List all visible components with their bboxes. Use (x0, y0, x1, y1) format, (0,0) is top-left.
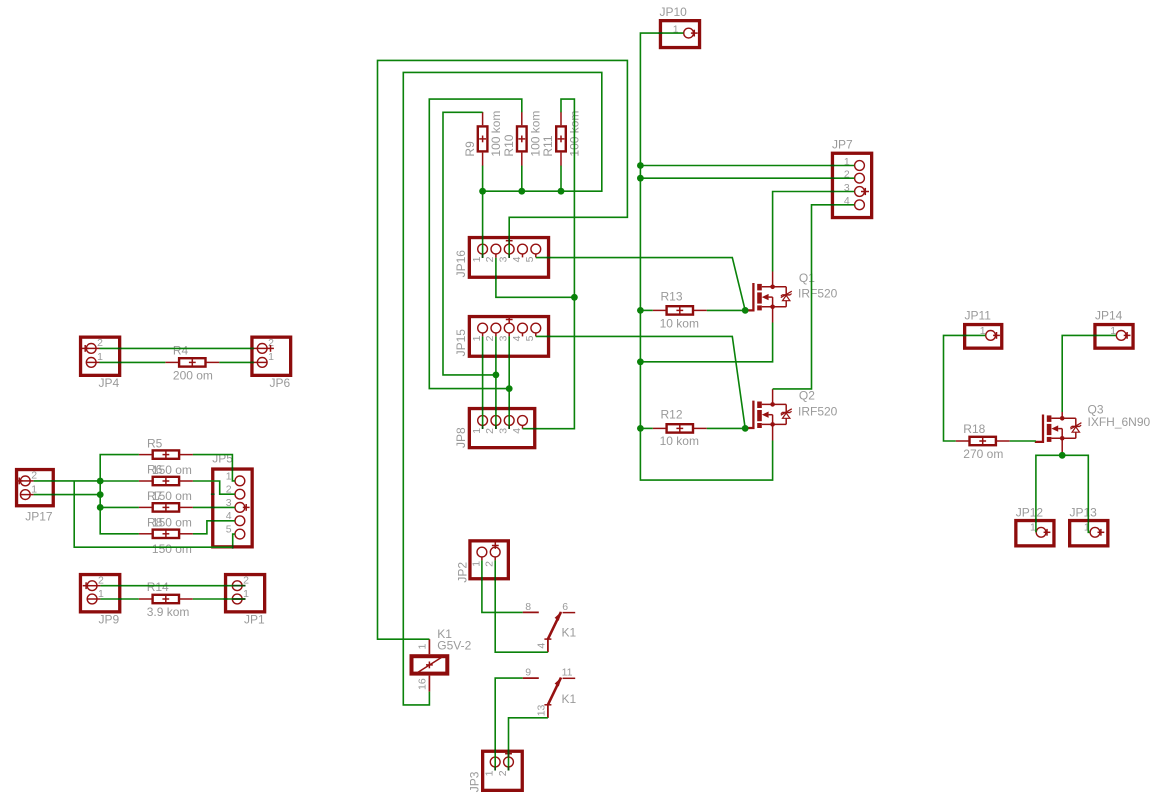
wire JP11 to R18 (944, 335, 986, 441)
value IRF520 of Q1 (798, 287, 838, 301)
wire JP17 pin 2 to JP5 pin 5 (74, 481, 235, 547)
wire R6 left (100, 480, 139, 482)
wire R13 left (640, 309, 652, 311)
value 150 om of R6 (152, 489, 192, 503)
pin 2 of JP2 (484, 547, 500, 567)
svg-text:8: 8 (525, 601, 531, 613)
label Q3 (1088, 402, 1104, 416)
svg-text:2: 2 (97, 337, 103, 349)
relay coil K1 (412, 639, 448, 691)
svg-text:R5: R5 (147, 436, 163, 450)
pin lines JP17 (20, 481, 33, 495)
pin 1 of JP1 (232, 588, 249, 604)
pin 1 of JP5 (226, 470, 245, 486)
wire over JP5 border pin 2 (211, 493, 215, 495)
svg-text:JP15: JP15 (454, 329, 468, 357)
svg-text:11: 11 (562, 667, 573, 679)
connector JP3 (483, 751, 523, 790)
junction JP16 pin 2 net (571, 294, 578, 301)
svg-text:13: 13 (535, 704, 547, 716)
svg-text:1: 1 (226, 470, 232, 482)
svg-text:R9: R9 (463, 141, 477, 157)
wire R14 to JP1 pin 1 (193, 598, 246, 600)
wire over JP3 border pin 2 (508, 749, 510, 753)
value 3.9 kom of R14 (147, 605, 190, 619)
origin cross JP13 (1098, 529, 1105, 536)
connector JP14 (1095, 325, 1133, 349)
svg-text:2: 2 (98, 575, 104, 587)
connector JP11 (965, 325, 1002, 349)
connector JP2 (470, 541, 508, 579)
wire over JP11 border (963, 334, 967, 336)
pin 4 label (535, 643, 547, 649)
wire JP15 pin 1 to JP8 pin 1 (482, 336, 484, 428)
wire R10 bottom (521, 166, 523, 192)
svg-text:1: 1 (31, 483, 37, 495)
svg-text:1: 1 (471, 335, 483, 341)
label JP17 (25, 510, 53, 524)
svg-text:JP17: JP17 (25, 510, 53, 524)
wire end over JP3 pin 2 (508, 767, 510, 771)
connector JP9 (80, 575, 119, 612)
pin 2 of JP3 (497, 757, 513, 776)
label R6 (147, 463, 163, 477)
junction JP7 pin 1 net (637, 162, 644, 169)
wire R7 left (100, 506, 139, 508)
svg-text:2: 2 (484, 256, 496, 262)
wire over JP6 border pin 1 (250, 361, 254, 363)
value IRF520 of Q2 (798, 404, 838, 418)
wire to JP7 pin 2 (640, 177, 854, 179)
svg-text:1: 1 (268, 351, 274, 363)
label JP15 (454, 329, 468, 357)
wire end over JP16 pin 3 (508, 254, 510, 258)
label R11 (541, 135, 555, 156)
pin 5 of JP5 (226, 524, 245, 539)
wire over JP10 border (659, 32, 663, 34)
connector JP16 (469, 238, 548, 278)
svg-text:1: 1 (243, 588, 249, 600)
resistor R6 (139, 477, 193, 485)
wire JP16 pin 3 outer loop to relay coil pin 1 (378, 60, 628, 639)
svg-text:R14: R14 (147, 580, 169, 594)
wire over JP16 border pin 5 (547, 257, 551, 259)
junction R12 left (637, 425, 644, 432)
wire over JP7 border pin 4 (831, 204, 835, 206)
label JP5 (212, 452, 233, 466)
connector JP5 (213, 469, 252, 547)
label JP4 (99, 376, 120, 390)
wire over JP7 border pin 1 (831, 165, 835, 167)
svg-text:4: 4 (511, 335, 523, 341)
svg-text:JP4: JP4 (99, 376, 120, 390)
origin cross JP5 (243, 504, 250, 511)
pin lines JP9 (87, 586, 100, 599)
label JP2 (455, 562, 469, 583)
wire over JP15 border pin 2 (495, 354, 497, 358)
junction Q1 source (637, 358, 644, 365)
wire over JP9 border pin 2 (118, 585, 122, 587)
wire over JP15 border pin 1 (482, 354, 484, 358)
connector JP7 (832, 153, 871, 217)
wire Q1 source (640, 323, 772, 362)
wire over JP12 border (1035, 519, 1037, 523)
svg-text:150 om: 150 om (152, 463, 192, 477)
svg-text:16: 16 (417, 678, 429, 690)
value 10 kom of R13 (660, 317, 699, 331)
origin cross JP17 (16, 478, 23, 485)
svg-text:JP16: JP16 (454, 250, 468, 278)
junction R11 bottom (558, 188, 565, 195)
label K1 coil (437, 627, 452, 641)
wire R5 to JP5 pin 1 (193, 455, 235, 481)
value G5V-2 of K1 (437, 638, 471, 652)
svg-text:JP7: JP7 (832, 138, 853, 152)
pin 5 of JP16 (524, 244, 541, 262)
origin cross JP12 (1044, 529, 1051, 536)
svg-text:3.9 kom: 3.9 kom (147, 605, 190, 619)
wire R9 top to JP15 pin 2 junction (443, 112, 496, 375)
pin 3 of JP16 (498, 244, 515, 262)
wire R11 bottom (560, 166, 562, 192)
wire over JP16 border pin 1 (482, 236, 484, 240)
label K1 contact lower (562, 692, 577, 706)
pin 1 of JP15 (471, 323, 488, 341)
svg-text:JP9: JP9 (99, 613, 120, 627)
svg-text:1: 1 (97, 351, 103, 363)
wire over JP2 border pin 2 (494, 577, 496, 581)
resistor R8 (139, 530, 193, 538)
origin cross JP7 (861, 188, 869, 195)
wire JP2 pin 1 to contact pin 8 (482, 560, 523, 612)
svg-text:150 om: 150 om (152, 489, 192, 503)
svg-text:2: 2 (31, 470, 37, 482)
junction R7 left (97, 504, 104, 511)
wire end over JP16 pin 1 (482, 254, 484, 258)
wire over JP9 border pin 1 (118, 598, 122, 600)
label R8 (147, 516, 163, 530)
transistor Q3 (1035, 412, 1082, 452)
wire over JP5 border pin 3 (211, 506, 215, 508)
svg-text:100 kom: 100 kom (489, 111, 503, 157)
resistor R9 (478, 112, 488, 166)
svg-text:9: 9 (525, 667, 531, 679)
pin 4 of JP8 (511, 416, 528, 434)
wire over JP7 border pin 2 (831, 177, 835, 179)
wire over JP3 origin cross (508, 750, 510, 757)
value 150 om of R7 (152, 516, 192, 530)
svg-text:G5V-2: G5V-2 (437, 638, 471, 652)
wire R9 bottom to JP16 pin 1 (482, 166, 484, 258)
wire resistor bus R5-R8 (100, 455, 139, 534)
resistor R13 (653, 306, 707, 314)
svg-text:R18: R18 (963, 422, 985, 436)
svg-text:K1: K1 (562, 625, 577, 639)
value IXFH_6N90 of Q3 (1088, 415, 1151, 429)
label JP16 (454, 250, 468, 278)
svg-text:2: 2 (497, 770, 509, 776)
resistor R11 (556, 112, 566, 166)
pin 5 of JP15 (524, 323, 541, 341)
wire over JP5 border bottom (232, 545, 234, 549)
pin 2 of JP7 (844, 169, 864, 184)
wire R8 to JP5 pin 4 (193, 521, 235, 534)
junction JP7 pin 2 net (637, 175, 644, 182)
pin 2 of JP15 (484, 323, 501, 341)
svg-text:5: 5 (524, 256, 536, 262)
pin 13 label (535, 704, 547, 716)
svg-text:JP12: JP12 (1016, 505, 1044, 519)
wire JP4 pin 1 to R4 (100, 361, 166, 363)
wire end over JP8 pin 3 (508, 425, 510, 429)
label R4 (173, 343, 189, 357)
wire JP10 net spine (640, 33, 772, 480)
wire JP2 pin 2 to contact pin 4 (495, 560, 548, 652)
svg-text:JP2: JP2 (455, 562, 469, 583)
label R9 (463, 141, 477, 157)
svg-text:R10: R10 (502, 134, 516, 156)
label JP9 (99, 613, 120, 627)
wire over JP1 border pin 2 (224, 585, 228, 587)
pin 1 of JP2 (470, 547, 486, 567)
svg-text:1: 1 (471, 256, 483, 262)
origin cross JP16 (506, 237, 513, 244)
pin 2 of JP17 (20, 470, 37, 486)
label R13 (661, 290, 683, 304)
wire over JP8 border pin 3 (508, 407, 510, 411)
pin 6 label (562, 601, 568, 613)
svg-text:10 kom: 10 kom (660, 434, 699, 448)
pin 1 of JP11 (980, 325, 996, 341)
pin 3 of JP7 (844, 182, 864, 197)
origin cross JP6 (267, 345, 274, 352)
svg-text:IRF520: IRF520 (798, 404, 838, 418)
wire Q2 drain to JP7 pin 4 (773, 205, 855, 389)
svg-text:5: 5 (524, 335, 536, 341)
connector JP13 (1070, 521, 1108, 546)
label JP8 (454, 427, 468, 448)
value 200 om of R4 (173, 369, 213, 383)
svg-text:150 om: 150 om (152, 542, 192, 556)
label K1 contact upper (562, 625, 577, 639)
value 150 om of R5 (152, 463, 192, 477)
connector JP8 (469, 409, 534, 448)
wire JP16 pin 5 to Q1 gate (536, 258, 745, 311)
origin cross JP2 (492, 542, 499, 549)
resistor R7 (139, 503, 193, 511)
svg-text:1: 1 (470, 561, 482, 567)
resistor R5 (139, 450, 193, 458)
svg-text:270 om: 270 om (963, 447, 1003, 461)
value 100 kom of R11 (568, 111, 582, 157)
wire over JP8 border pin 2 (495, 407, 497, 411)
label R14 (147, 580, 169, 594)
wire R12 left (640, 427, 652, 429)
junction JP15 pin 2 net (493, 372, 500, 379)
origin cross JP9 (83, 582, 90, 589)
svg-text:4: 4 (511, 428, 523, 434)
wire R4 to JP6 pin 1 (219, 361, 254, 363)
svg-text:R11: R11 (541, 135, 555, 156)
svg-text:3: 3 (498, 256, 510, 262)
resistor R4 (165, 358, 219, 366)
svg-text:5: 5 (226, 524, 232, 536)
wire to JP7 pin 1 (640, 165, 854, 167)
wire JP14 to Q3 drain (1062, 335, 1116, 412)
wire over JP7 border pin 3 (831, 191, 835, 193)
wire JP15 pin 5 to Q2 gate (536, 336, 745, 428)
pin 1 of JP8 (471, 416, 488, 434)
label JP10 (660, 5, 688, 19)
svg-text:4: 4 (511, 256, 523, 262)
wire over JP8 border pin 1 (482, 407, 484, 411)
wire over JP5 border pin 4 (211, 520, 215, 522)
svg-text:JP14: JP14 (1095, 309, 1123, 323)
junction Q1 gate (742, 307, 749, 314)
label R18 (963, 422, 985, 436)
pin lines JP1 (232, 586, 245, 599)
wire JP17 pin 2 (34, 480, 101, 482)
resistor R10 (517, 112, 527, 166)
junction Q3 source (1059, 452, 1066, 459)
svg-text:JP10: JP10 (660, 5, 688, 19)
label JP6 (270, 376, 291, 390)
label R7 (147, 489, 163, 503)
wire over JP16 border pin 3 (508, 236, 510, 240)
svg-text:IXFH_6N90: IXFH_6N90 (1088, 415, 1151, 429)
wire over JP1 border pin 1 (224, 598, 228, 600)
wire contact pin 13 to JP3 pin 2 (509, 718, 548, 771)
svg-text:JP13: JP13 (1070, 505, 1098, 519)
pin 16 of K1 coil (417, 678, 429, 690)
svg-text:3: 3 (498, 428, 510, 434)
label JP12 (1016, 505, 1044, 519)
pin 1 of JP4 (86, 351, 103, 367)
pin 2 of JP8 (484, 416, 501, 434)
svg-text:K1: K1 (562, 692, 577, 706)
svg-text:R13: R13 (661, 290, 683, 304)
connector JP12 (1016, 521, 1054, 546)
pin 1 of JP14 (1110, 325, 1126, 341)
pin 1 of JP10 (673, 24, 694, 38)
wire R7 to JP5 pin 3 (193, 506, 235, 508)
pin 1 of JP7 (844, 156, 864, 171)
junction JP15 pin 3 net (506, 385, 513, 392)
wire over JP17 border pin 1 (51, 494, 55, 496)
value 100 kom of R10 (528, 111, 542, 157)
wire over JP4 border pin 1 (118, 361, 122, 363)
wire end over JP3 pin 1 (494, 767, 496, 771)
wire Q1 drain to JP7 pin 3 (773, 192, 855, 272)
connector JP4 (81, 337, 120, 375)
wire JP15 pin 2 to JP8 pin 2 (495, 336, 497, 428)
svg-text:JP1: JP1 (244, 613, 265, 627)
pin 2 of JP4 (86, 337, 103, 353)
label JP1 (244, 613, 265, 627)
pin 1 of JP3 (484, 757, 500, 776)
label JP11 (965, 309, 992, 323)
wire end over JP8 pin 2 (495, 425, 497, 429)
wire JP16 pin 2 (496, 258, 575, 298)
svg-text:150 om: 150 om (152, 516, 192, 530)
transistor Q1 (745, 272, 792, 323)
connector JP10 (660, 21, 699, 48)
svg-text:JP8: JP8 (454, 427, 468, 448)
origin cross JP3 (505, 750, 512, 757)
pin 1 of JP9 (87, 588, 104, 604)
svg-text:2: 2 (243, 575, 249, 587)
value 150 om of R8 (152, 542, 192, 556)
origin cross JP4 (82, 345, 89, 352)
wire over JP3 border pin 1 (494, 749, 496, 753)
pin lines JP4 (86, 348, 99, 362)
svg-text:100 kom: 100 kom (528, 111, 542, 157)
svg-text:2: 2 (484, 335, 496, 341)
svg-text:JP11: JP11 (965, 309, 992, 323)
svg-text:1: 1 (471, 428, 483, 434)
wire over JP15 border pin 3 (508, 354, 510, 358)
label R5 (147, 436, 163, 450)
wire R6 to JP5 pin 2 (193, 481, 235, 494)
pin 1 of JP16 (471, 244, 488, 262)
wire R10 top to JP15 pin 3 junction (429, 99, 522, 389)
wire resistor bottoms loop to relay coil pin 16 (403, 72, 602, 705)
origin cross JP15 (506, 316, 513, 323)
wire contact pin 9 to JP3 pin 1 (495, 678, 523, 770)
pin 2 of JP6 (257, 337, 274, 353)
origin cross JP11 (993, 332, 1000, 339)
wire R18 to Q3 gate (1010, 440, 1036, 442)
pin 3 of JP8 (498, 416, 515, 434)
wire over JP15 border pin 5 (547, 335, 551, 337)
pin 8 label (525, 601, 531, 613)
wire R11 top to JP16 pin 2 and JP8 pin 4 (523, 99, 575, 429)
pin 1 of K1 coil (417, 644, 429, 650)
wire end over JP1 pin 1 (232, 598, 245, 600)
relay contact K1 lower (523, 677, 576, 718)
pin 4 of JP7 (844, 195, 864, 210)
svg-text:2: 2 (484, 561, 496, 567)
wire over JP2 border pin 1 (481, 577, 483, 581)
wire over JP14 border (1093, 334, 1097, 336)
pin 1 of JP13 (1084, 522, 1100, 537)
value 10 kom of R12 (660, 434, 699, 448)
connector JP6 (252, 337, 291, 375)
origin cross JP10 (691, 30, 698, 37)
junction R6 left (97, 478, 104, 485)
wire over JP6 border pin 2 (250, 347, 254, 349)
pin lines JP6 (254, 348, 267, 362)
relay contact K1 upper (523, 611, 576, 652)
transistor Q2 (745, 389, 792, 440)
wire JP9 pin 1 to R14 (100, 598, 138, 600)
svg-text:10 kom: 10 kom (660, 317, 699, 331)
svg-text:4: 4 (535, 643, 547, 649)
label JP14 (1095, 309, 1123, 323)
connector JP15 (469, 317, 548, 357)
pin 3 of JP5 (226, 497, 245, 513)
pin 4 of JP5 (226, 510, 245, 525)
junction Q2 gate (742, 425, 749, 432)
connector JP1 (226, 575, 265, 612)
wire over JP17 border pin 2 (51, 480, 55, 482)
value 270 om of R18 (963, 447, 1003, 461)
pin 2 of JP9 (87, 575, 104, 591)
wire over JP5 border top (231, 467, 233, 471)
label Q2 (799, 389, 815, 403)
wire R13 right to Q1 gate (707, 309, 745, 311)
resistor R14 (139, 595, 193, 603)
